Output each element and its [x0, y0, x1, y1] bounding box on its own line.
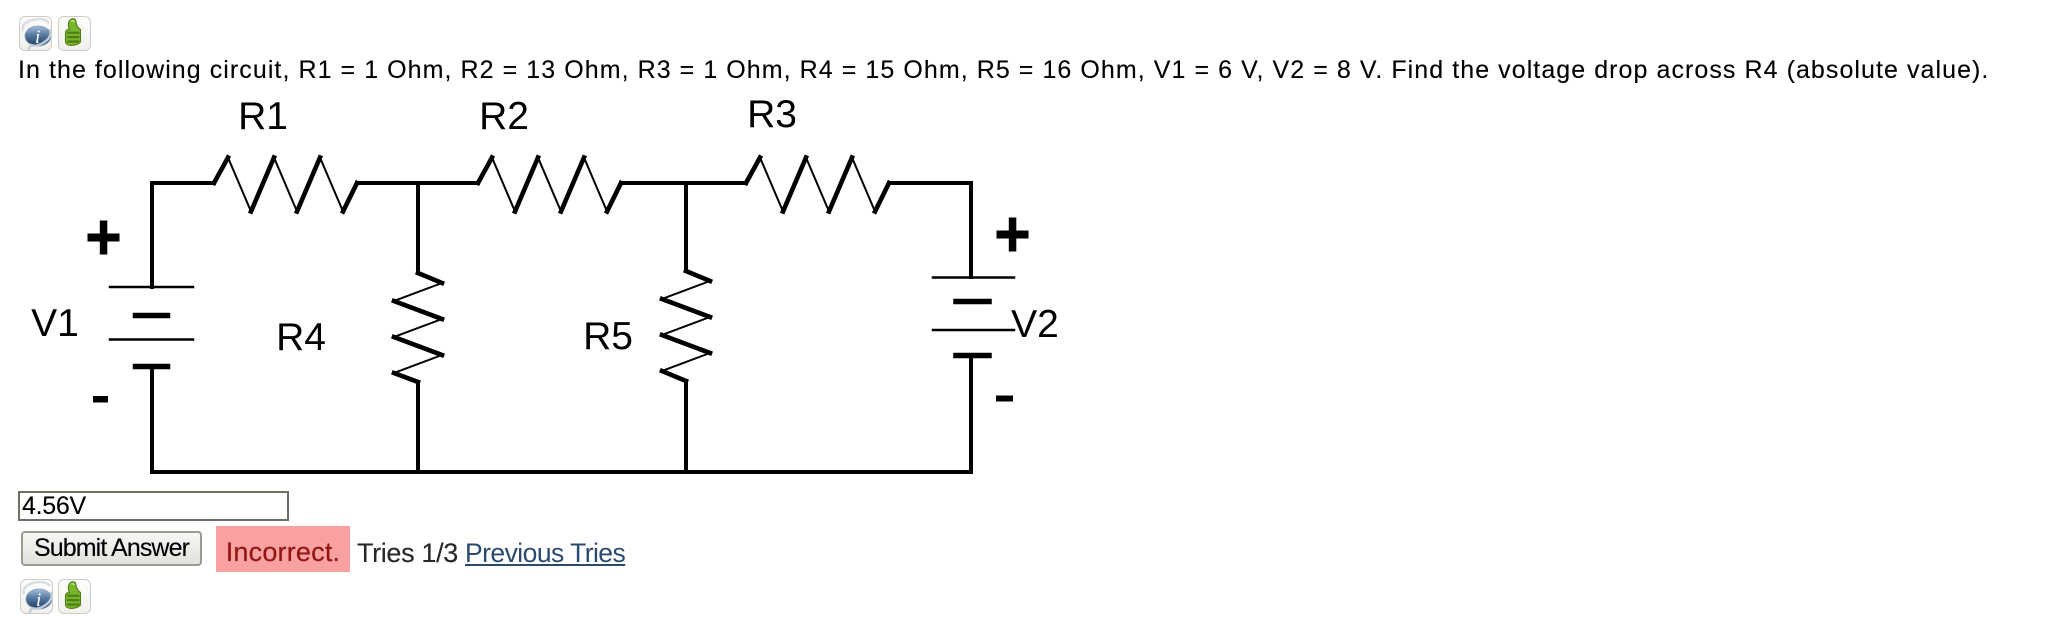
V1 plus sign [88, 234, 120, 242]
battery V2 plates [933, 278, 1014, 356]
V2 minus sign [996, 396, 1013, 402]
wire: V1 bottom lead [150, 367, 154, 473]
svg-text:R5: R5 [583, 315, 633, 358]
incorrect flag [216, 526, 350, 572]
wire: R2 to node B [621, 181, 746, 185]
resistor R1 [214, 158, 357, 212]
svg-text:R1: R1 [238, 95, 288, 138]
V2 plus sign [997, 231, 1029, 239]
svg-text:R4: R4 [276, 316, 326, 359]
wire: V2 bottom lead [969, 356, 973, 473]
toolbar button: thumbs-up icon (bottom) [58, 579, 91, 614]
wire: R4 bottom lead [416, 382, 420, 472]
resistor R5 [662, 271, 710, 381]
problem statement text [18, 56, 1989, 85]
svg-text:V1: V1 [31, 302, 79, 345]
wire: top-left segment and left vertical (V1 top lead) [152, 183, 214, 287]
resistor R4 [394, 273, 442, 382]
toolbar button: discussion/info icon (bottom) [20, 579, 53, 614]
resistor R2 [478, 158, 621, 212]
previous tries link [465, 538, 625, 569]
tries counter [357, 538, 458, 569]
node B: junction drop wire to R5 [684, 183, 688, 271]
submit button [21, 531, 202, 566]
svg-text:R3: R3 [747, 93, 797, 136]
answer input box [18, 491, 289, 521]
resistor R3 [746, 158, 889, 212]
wire: R5 bottom lead [684, 381, 688, 472]
wire: bottom rail [152, 470, 971, 474]
wire: R1 to node A [357, 181, 478, 185]
battery V1 plates [110, 287, 193, 367]
V1 minus sign [93, 396, 108, 403]
toolbar button: discussion/info icon (top) [19, 16, 52, 51]
toolbar button: thumbs-up icon (top) [58, 16, 91, 51]
svg-text:V2: V2 [1011, 303, 1059, 346]
node A: junction drop wire to R4 [416, 183, 420, 273]
wire: R3 to top-right corner and right vertical (V2 top lead) [889, 183, 971, 277]
svg-text:R2: R2 [479, 95, 529, 138]
svg-text:i: i [36, 590, 41, 611]
